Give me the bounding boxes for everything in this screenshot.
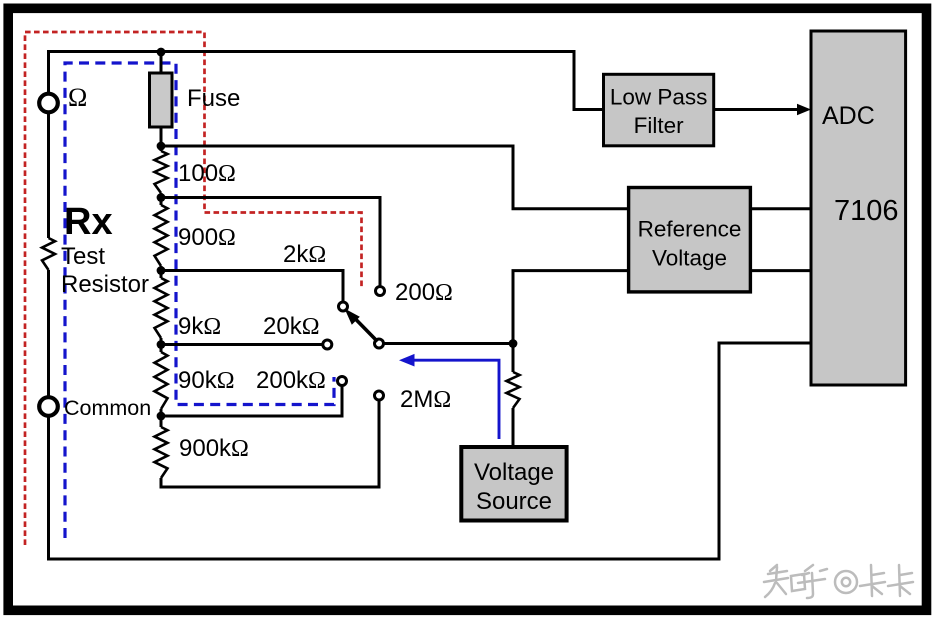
wire: top junction to fuse	[160, 52, 163, 75]
red dashed 200-ohm range path	[25, 32, 362, 545]
wire: fuse to ladder junction A	[160, 127, 163, 151]
fuse F1	[150, 73, 173, 127]
wire: Reference Voltage upper output to ADC	[750, 207, 811, 210]
svg-text:Voltage: Voltage	[652, 246, 727, 271]
contact 2M	[375, 391, 384, 400]
wire: Low Pass Filter output arrow to ADC	[714, 108, 799, 111]
block: Low Pass Filter	[604, 74, 714, 146]
svg-text:Ω: Ω	[68, 83, 87, 112]
node: junction B (200 tap)	[157, 193, 166, 202]
svg-text:Common: Common	[64, 396, 151, 420]
switch SW1 wiper arm with arrowhead	[345, 309, 378, 342]
wire: junction C (2k tap) right and down to switch top contact	[161, 271, 343, 302]
wire: Common terminal to bottom rail to ADC	[49, 343, 812, 559]
wire: resistor to Voltage Source	[512, 408, 515, 448]
svg-text:90kΩ: 90kΩ	[178, 367, 235, 394]
wire: switch common to voltage-source node	[384, 342, 513, 345]
wire: 900ohm to junction C	[160, 266, 163, 278]
svg-text:ADC: ADC	[822, 102, 875, 130]
svg-text:200Ω: 200Ω	[395, 279, 453, 306]
svg-text:Fuse: Fuse	[187, 85, 240, 112]
svg-text:9kΩ: 9kΩ	[178, 313, 221, 340]
resistor 9k ohm	[155, 278, 168, 338]
wire: 100ohm to junction B	[160, 193, 163, 205]
svg-text:Filter: Filter	[634, 113, 685, 138]
resistor Rx (test resistor)	[42, 238, 55, 270]
svg-text:20kΩ: 20kΩ	[263, 313, 320, 340]
resistor 100 ohm	[155, 151, 168, 193]
blue dashed 200k-ohm range path	[65, 63, 334, 538]
contact 200k	[338, 377, 347, 386]
node: top junction	[157, 48, 166, 57]
watermark zhihu @kaka	[764, 565, 913, 598]
wire: junction A to Reference Voltage upper input	[161, 146, 629, 209]
node: node at voltage source	[509, 339, 518, 348]
svg-text:2kΩ: 2kΩ	[283, 241, 326, 268]
block: ADC 7106	[811, 31, 906, 385]
node: junction C (2k tap)	[157, 266, 166, 275]
node: junction A (below fuse)	[157, 142, 166, 151]
resistor 90k ohm	[155, 352, 168, 409]
svg-text:2MΩ: 2MΩ	[400, 386, 451, 413]
switch common pole	[375, 339, 384, 348]
svg-text:900kΩ: 900kΩ	[179, 435, 249, 462]
resistor 900k ohm	[155, 427, 168, 478]
wire: top rail from Ohm terminal to Low Pass Filter input	[49, 52, 604, 110]
wire: Rx down to Common terminal	[47, 270, 50, 398]
wire: junction B right and down to 200 ohm contact	[161, 198, 380, 287]
block: Reference Voltage	[629, 188, 751, 292]
svg-text:Source: Source	[476, 488, 552, 515]
wire: junction E right and up to 200k contact	[161, 386, 342, 416]
wire: Reference Voltage lower output to ADC	[750, 269, 811, 272]
terminal Common (input jack)	[39, 397, 58, 416]
svg-text:7106: 7106	[834, 195, 899, 227]
svg-text:Test: Test	[61, 243, 105, 270]
svg-text:200kΩ: 200kΩ	[256, 367, 326, 394]
contact 20k	[323, 340, 332, 349]
svg-text:Rx: Rx	[64, 201, 113, 243]
wire: node to Reference Voltage lower input	[513, 271, 629, 344]
svg-text:Resistor: Resistor	[61, 271, 149, 298]
wire: 90k to junction E	[160, 409, 163, 427]
node: junction E (200k tap)	[157, 412, 166, 421]
svg-text:Reference: Reference	[638, 217, 742, 242]
terminal Ohm (input jack)	[39, 94, 58, 113]
block: Voltage Source	[461, 447, 566, 521]
wire: Ohm terminal down to Rx resistor	[47, 114, 50, 239]
resistor 900 ohm	[155, 205, 168, 266]
svg-text:100Ω: 100Ω	[178, 160, 236, 187]
resistor (voltage source series)	[507, 372, 520, 408]
contact 2k (switch throw)	[339, 302, 348, 311]
node: junction D (20k tap)	[157, 340, 166, 349]
wire: 900k to ladder bottom, right and up to 2M contact	[161, 401, 379, 488]
wire: junction D to 20k contact	[161, 343, 322, 346]
blue arrow from Voltage Source to switch node	[399, 354, 499, 439]
svg-text:Voltage: Voltage	[474, 459, 554, 486]
contact 200 ohm	[376, 287, 385, 296]
wire: node down to series resistor	[512, 344, 515, 373]
wire: 9k to junction D	[160, 338, 163, 352]
svg-text:Low Pass: Low Pass	[610, 85, 708, 110]
svg-text:900Ω: 900Ω	[178, 224, 236, 251]
